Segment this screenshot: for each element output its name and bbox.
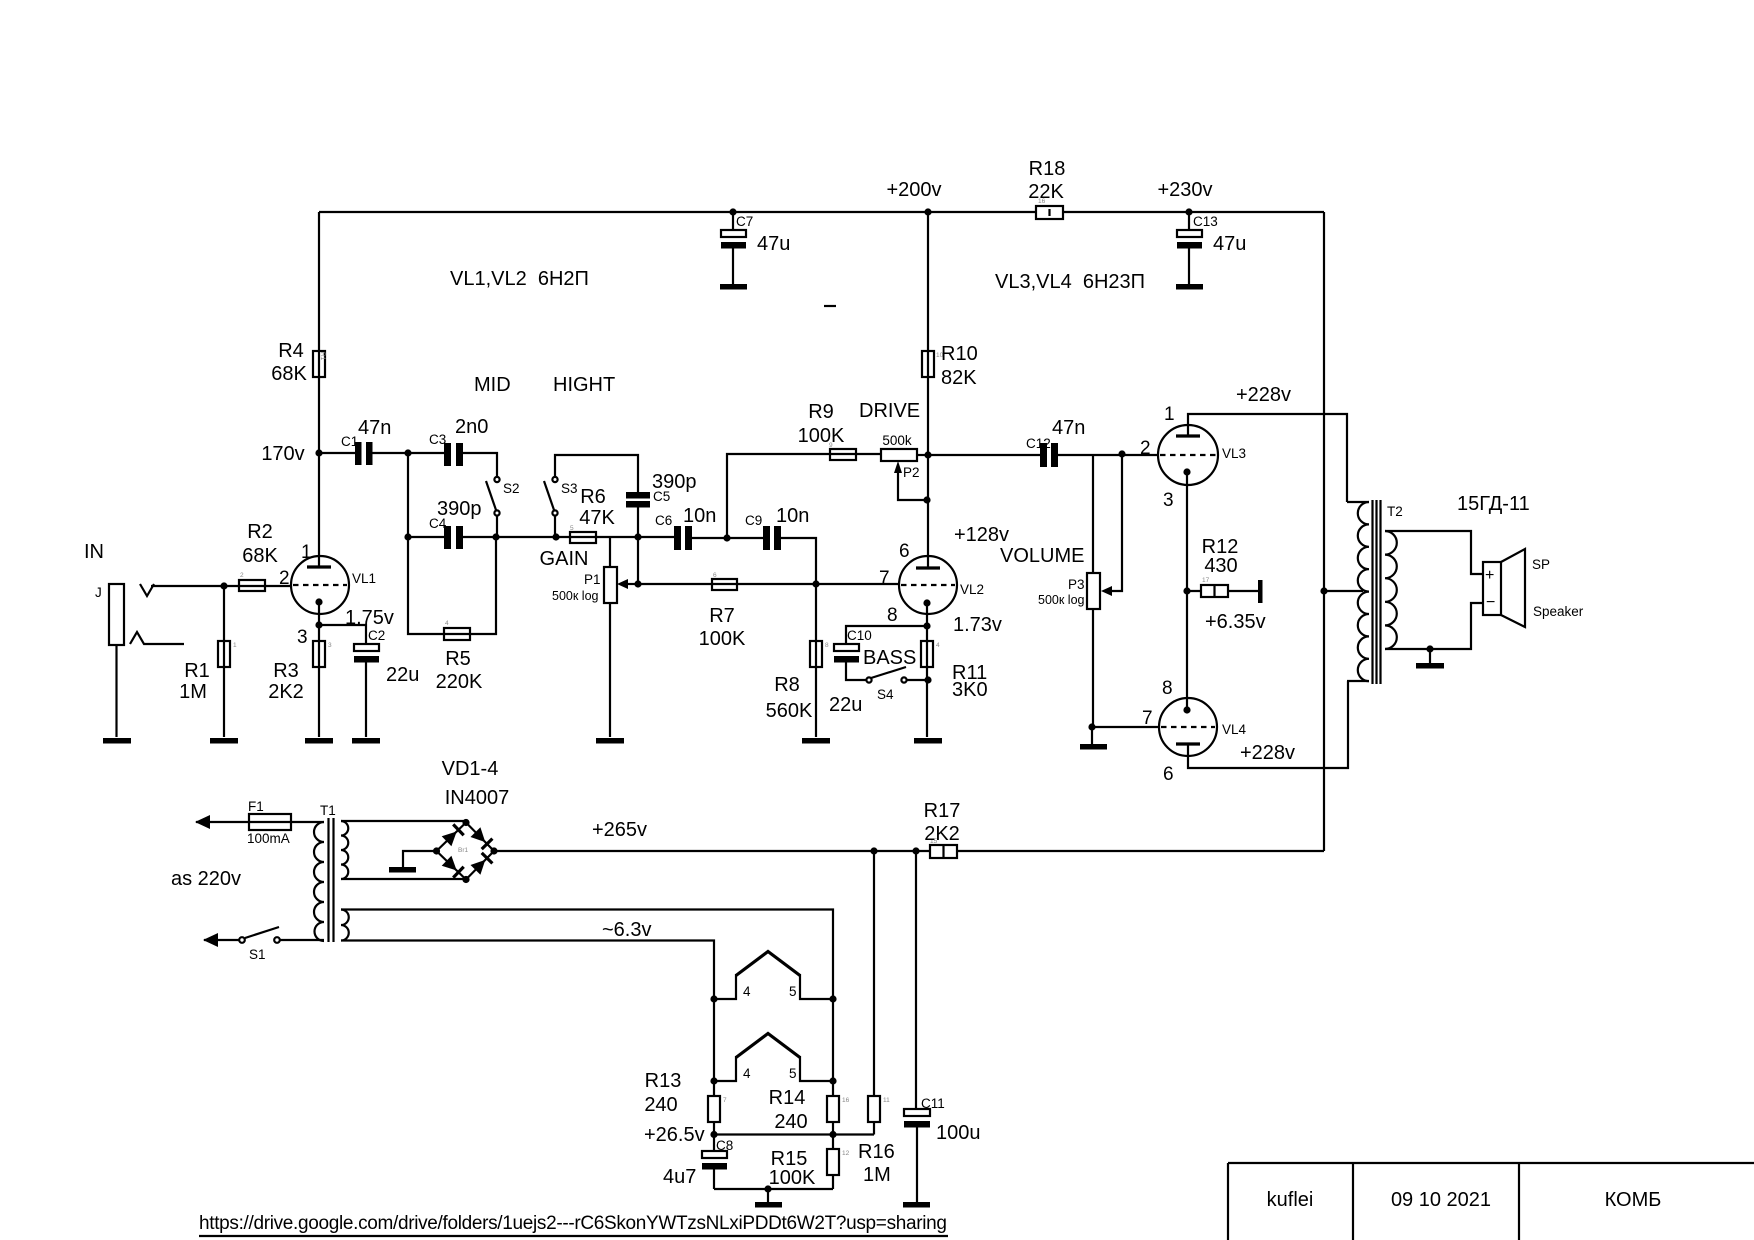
wire: R16 branch [873, 851, 875, 1096]
svg-text:VD1-4: VD1-4 [442, 758, 499, 780]
svg-text:100K: 100K [699, 628, 746, 650]
resistor R2 68K [239, 580, 265, 591]
svg-text:VL2: VL2 [960, 582, 984, 597]
svg-text:HIGHT: HIGHT [553, 374, 615, 396]
node P3 bottom [1088, 723, 1095, 730]
wire: VL4 plate to +228v line to T2 primary bottom [1188, 681, 1348, 768]
resistor R18 22K (in rail) [1036, 206, 1063, 219]
ground (T2 secondary) [1429, 649, 1431, 663]
svg-text:+228v: +228v [1236, 384, 1291, 406]
wire: cathode to C10 [846, 626, 927, 644]
wire: C6 to C9 [692, 537, 763, 539]
svg-text:R2: R2 [247, 521, 273, 543]
node R11 bottom [924, 676, 931, 683]
svg-text:C2: C2 [368, 628, 385, 643]
svg-text:Br1: Br1 [458, 847, 469, 854]
svg-text:S2: S2 [503, 481, 520, 496]
capacitor C4 390p [444, 526, 451, 549]
svg-text:6: 6 [713, 572, 717, 579]
svg-text:22u: 22u [829, 694, 862, 716]
svg-text:7: 7 [879, 568, 890, 589]
resistor R11 3K0 [921, 641, 933, 667]
svg-text:3: 3 [297, 627, 308, 648]
svg-text:16: 16 [842, 1097, 850, 1104]
svg-text:IN4007: IN4007 [445, 787, 510, 809]
svg-text:4: 4 [743, 984, 751, 999]
svg-text:R14: R14 [769, 1087, 806, 1109]
svg-text:R6: R6 [580, 486, 606, 508]
svg-text:5: 5 [789, 984, 797, 999]
node VL2 cathode 1.73v [923, 622, 930, 629]
svg-text:S1: S1 [249, 947, 266, 962]
title block [1228, 1163, 1754, 1240]
switch S2 [494, 477, 499, 482]
wire: C3 to S2 [463, 453, 497, 477]
wire: P2 right to plate line [917, 454, 928, 456]
wire: feedback tap up and over to R9 [727, 454, 881, 538]
svg-text:11: 11 [883, 1097, 890, 1104]
svg-text:КОМБ: КОМБ [1605, 1189, 1662, 1211]
svg-text:+265v: +265v [592, 819, 647, 841]
svg-text:68K: 68K [242, 545, 278, 567]
node +230v [1185, 208, 1192, 215]
wire: secondary top to speaker + [1385, 531, 1483, 574]
svg-text:2: 2 [279, 568, 290, 589]
svg-text:82K: 82K [941, 367, 977, 389]
capacitor C12 47n [1040, 443, 1047, 467]
wire: node E to C6 [638, 536, 674, 538]
wire: B+ right vertical (+230v to +265v) [1323, 212, 1325, 851]
capacitor C7 47u [729, 208, 736, 215]
svg-text:MID: MID [474, 374, 511, 396]
wire: C1 to node A [372, 452, 444, 454]
svg-text:F1: F1 [248, 799, 264, 814]
wire: VL1 cathode down [318, 602, 320, 737]
wire: C4 line [408, 536, 570, 538]
svg-text:R13: R13 [645, 1070, 682, 1092]
resistor R10 82K [922, 351, 934, 377]
svg-text:BASS: BASS [863, 647, 916, 669]
svg-text:C1: C1 [341, 434, 358, 449]
svg-text:~6.3v: ~6.3v [602, 919, 651, 941]
diode VD4 (bottom-right) [471, 860, 486, 875]
terminal bar +6.35v [1258, 580, 1263, 603]
svg-text:VL3,VL4 6Н23П: VL3,VL4 6Н23П [995, 271, 1145, 293]
resistor R4 [313, 351, 325, 377]
wire: P3 bottom to ground and VL4 grid [1092, 609, 1094, 727]
svg-text:R1: R1 [184, 660, 210, 682]
svg-text:R7: R7 [709, 605, 735, 627]
wire: R13 bottom to +26.5v node [713, 1122, 715, 1151]
svg-text:17: 17 [1202, 577, 1210, 584]
svg-text:3K0: 3K0 [952, 679, 988, 701]
svg-text:C9: C9 [745, 513, 762, 528]
svg-text:S3: S3 [561, 481, 578, 496]
svg-text:C3: C3 [429, 432, 446, 447]
svg-text:240: 240 [774, 1111, 807, 1133]
wire: C11 branch [915, 851, 917, 1109]
wire: wiper line to R7 [638, 583, 712, 585]
wire: plate line to C12 [928, 454, 1040, 456]
node E (R6/C5/C6 junction) [634, 533, 641, 540]
svg-text:+128v: +128v [954, 524, 1009, 546]
svg-text:5: 5 [789, 1066, 797, 1081]
svg-text:560K: 560K [766, 700, 813, 722]
svg-text:+6.35v: +6.35v [1205, 611, 1266, 633]
wire: R14-R15 link [832, 1122, 834, 1149]
svg-text:GAIN: GAIN [540, 548, 589, 570]
svg-text:C5: C5 [653, 489, 670, 504]
triode VL2 [899, 556, 957, 614]
wire: heater bottom [341, 941, 714, 1097]
svg-text:SP: SP [1532, 557, 1550, 572]
resistor R16 1M [868, 1096, 880, 1122]
svg-text:P2: P2 [903, 465, 920, 480]
svg-text:S4: S4 [877, 687, 894, 702]
svg-text:+: + [1485, 567, 1494, 584]
heater chevron VL1/VL2 [736, 952, 800, 976]
svg-text:P3: P3 [1068, 577, 1085, 592]
svg-text:C13: C13 [1193, 214, 1218, 229]
svg-text:7: 7 [1142, 708, 1153, 729]
node H (VL2 grid node) [812, 580, 819, 587]
ground (R1) [210, 738, 238, 744]
svg-text:240: 240 [644, 1094, 677, 1116]
svg-text:170v: 170v [261, 443, 304, 465]
ground (C8/R15) [764, 1185, 771, 1192]
wire: VL3 plate to +228v line to T2 primary top [1188, 414, 1347, 502]
ground (R11) [914, 738, 942, 744]
svg-text:7: 7 [723, 1097, 727, 1104]
svg-text:47n: 47n [358, 417, 391, 439]
ground (R3) [305, 738, 333, 744]
svg-text:as 220v: as 220v [171, 868, 241, 890]
svg-text:https://drive.google.com/drive: https://drive.google.com/drive/folders/1… [199, 1213, 947, 1234]
wire: +200v top rail [319, 211, 1324, 213]
heater chevron VL3/VL4 [736, 1034, 800, 1058]
resistor R3 2K2 [313, 641, 325, 667]
P3 wiper arrow [1111, 454, 1122, 591]
svg-text:R17: R17 [924, 800, 961, 822]
node C (C4 left junction) [404, 533, 411, 540]
svg-text:12: 12 [842, 1150, 850, 1157]
wire: cathode to C2 [319, 625, 366, 644]
svg-text:22K: 22K [1028, 181, 1064, 203]
potentiometer P2 500k [881, 449, 917, 461]
diode VD2 (top-right) [471, 827, 486, 842]
wire: bottom ground line [714, 1175, 833, 1189]
svg-text:3: 3 [1163, 490, 1174, 511]
svg-text:R18: R18 [1029, 158, 1066, 180]
svg-text:2: 2 [240, 572, 244, 579]
wire: input signal to R2 [151, 585, 292, 587]
svg-text:R5: R5 [445, 648, 471, 670]
resistor R1 1M [223, 586, 225, 737]
wire: to VL4 grid [1092, 726, 1159, 728]
svg-text:T1: T1 [320, 803, 336, 818]
ground (C13) [1176, 284, 1203, 290]
svg-text:22u: 22u [386, 664, 419, 686]
resistor R14 240 [827, 1096, 839, 1122]
node R16 top [870, 847, 877, 854]
svg-text:IN: IN [84, 541, 104, 563]
switch S3 [552, 477, 557, 482]
resistor R17 2K2 [930, 845, 957, 858]
capacitor C6 10n [674, 526, 681, 550]
wire: VL3 cathode down to VL4 cathode [1186, 472, 1188, 710]
wire: node A down to C4 line [407, 453, 409, 537]
capacitor C3 2n0 [444, 443, 451, 466]
svg-text:500к log: 500к log [1038, 593, 1085, 607]
svg-text:R16: R16 [858, 1141, 895, 1163]
node R15 top [829, 1131, 836, 1138]
svg-text:T2: T2 [1387, 504, 1403, 519]
resistor R7 100K [712, 583, 816, 585]
svg-text:8: 8 [825, 642, 829, 649]
svg-text:1: 1 [1164, 404, 1175, 425]
wire: C5 bottom to wiper node [637, 507, 639, 584]
triode VL1 [291, 556, 349, 614]
svg-text:4u7: 4u7 [663, 1166, 696, 1188]
svg-text:J: J [95, 585, 102, 600]
svg-text:C7: C7 [736, 214, 753, 229]
potentiometer P1 500k log [609, 538, 611, 737]
node T2 primary center tap [1320, 587, 1327, 594]
wire: branch down to P3 [1092, 455, 1094, 573]
svg-text:430: 430 [1204, 555, 1237, 577]
svg-text:DRIVE: DRIVE [859, 400, 920, 422]
ground (R8) [802, 738, 830, 744]
svg-text:2K2: 2K2 [268, 681, 304, 703]
svg-text:10n: 10n [776, 505, 809, 527]
svg-text:R9: R9 [808, 401, 834, 423]
triode VL3 [1158, 425, 1218, 485]
node F (P1 wiper / C5) [634, 580, 641, 587]
node R12 tap [1183, 587, 1190, 594]
svg-text:3: 3 [328, 642, 332, 649]
svg-text:1M: 1M [863, 1164, 891, 1186]
ground (C2) [352, 738, 380, 744]
svg-text:4: 4 [445, 620, 449, 627]
svg-text:10n: 10n [683, 505, 716, 527]
jack ring contact [130, 632, 184, 644]
wire: VL1 plate vertical (rail to VL1 pin 1) [318, 212, 320, 567]
node P3 wiper tap [1118, 450, 1125, 457]
svg-text:+200v: +200v [886, 179, 941, 201]
ground (C11) [903, 1202, 930, 1208]
svg-text:500к log: 500к log [552, 589, 599, 603]
svg-text:8: 8 [1162, 678, 1173, 699]
svg-text:2: 2 [1140, 438, 1151, 459]
capacitor C9 10n [763, 526, 770, 550]
node B (C4/S2/R5 junction) [492, 533, 499, 540]
node secondary ground [1426, 645, 1433, 652]
svg-text:2n0: 2n0 [455, 416, 488, 438]
svg-text:P1: P1 [584, 572, 601, 587]
svg-text:R4: R4 [278, 340, 304, 362]
wire: grid node to VL2 pin 7 [816, 583, 899, 585]
wire: C12 to VL3 grid [1058, 454, 1158, 456]
svg-text:C12: C12 [1026, 436, 1051, 451]
svg-text:+230v: +230v [1157, 179, 1212, 201]
svg-text:Speaker: Speaker [1533, 604, 1584, 619]
stray dash [824, 305, 836, 307]
svg-text:100u: 100u [936, 1122, 981, 1144]
svg-text:47n: 47n [1052, 417, 1085, 439]
svg-text:2K2: 2K2 [924, 823, 960, 845]
svg-text:VL4: VL4 [1222, 722, 1247, 737]
svg-text:VL3: VL3 [1222, 446, 1246, 461]
svg-text:4: 4 [936, 642, 940, 649]
resistor R8 560K [815, 584, 817, 737]
wire: S3 top over to C5 [555, 455, 638, 492]
svg-text:C6: C6 [655, 513, 672, 528]
resistor R12 430 [1187, 590, 1259, 592]
node P2 right [924, 451, 931, 458]
svg-text:68K: 68K [271, 363, 307, 385]
resistor R13 240 [708, 1096, 720, 1122]
capacitor C1 47n [355, 442, 362, 465]
wire: S4 to R11 bottom [907, 679, 928, 681]
svg-text:C10: C10 [847, 628, 872, 643]
svg-text:500k: 500k [882, 433, 912, 448]
wire: S2 to C4 line [496, 516, 498, 537]
node 170v [315, 449, 322, 456]
resistor R6 47K [570, 536, 638, 538]
wire: +26.5v line [714, 1133, 874, 1135]
svg-text:1: 1 [301, 542, 312, 563]
svg-text:100mA: 100mA [247, 831, 290, 846]
svg-text:1M: 1M [179, 681, 207, 703]
svg-text:1.73v: 1.73v [953, 614, 1002, 636]
svg-text:+26.5v: +26.5v [644, 1124, 705, 1146]
svg-text:+228v: +228v [1240, 742, 1295, 764]
wire: VL2 cathode down to ground [926, 603, 928, 737]
ground (jack) [103, 738, 131, 744]
node R1 top [220, 582, 227, 589]
node G (feedback tap) [723, 534, 730, 541]
resistor R15 100K [827, 1149, 839, 1175]
svg-text:47u: 47u [1213, 233, 1246, 255]
svg-text:R10: R10 [941, 343, 978, 365]
svg-text:47u: 47u [757, 233, 790, 255]
svg-text:VOLUME: VOLUME [1000, 545, 1084, 567]
wire: +200v down through R10 to VL2 plate [927, 212, 929, 568]
switch S1 [204, 939, 239, 941]
switch S4 [866, 677, 871, 682]
svg-text:R8: R8 [774, 674, 800, 696]
wire: jack sleeve to ground [115, 645, 117, 737]
ground (C7) [720, 284, 747, 290]
transformer T2 secondary [1385, 531, 1397, 649]
transformer T1 HV secondary [341, 821, 348, 879]
wire: R5 loop [408, 537, 496, 634]
svg-text:220K: 220K [436, 671, 483, 693]
node P2 wiper tap [923, 496, 930, 503]
svg-text:100K: 100K [769, 1167, 816, 1189]
svg-text:1: 1 [233, 642, 237, 649]
resistor R5 220K [444, 628, 470, 640]
svg-text:R1: R1 [319, 352, 326, 361]
node C11 top [912, 847, 919, 854]
svg-text:6: 6 [899, 541, 910, 562]
capacitor C5 390p [626, 492, 650, 499]
wire: C9 down to grid line [781, 538, 816, 584]
transformer T1 core [329, 818, 334, 942]
diode VD3 (bottom-left) [442, 856, 457, 871]
svg-text:VL1: VL1 [352, 571, 376, 586]
transformer T1 heater secondary [341, 910, 349, 941]
node +26.5v [710, 1131, 717, 1138]
node VL1 cathode (1.75v) [315, 621, 322, 628]
wire: HV bottom to bridge [341, 878, 466, 880]
svg-text:09 10 2021: 09 10 2021 [1391, 1189, 1491, 1211]
svg-text:100K: 100K [798, 425, 845, 447]
svg-text:4: 4 [743, 1066, 751, 1081]
wire: heater top ~6.3v [341, 910, 833, 1097]
node +200v [924, 208, 931, 215]
potentiometer P3 500k log [1087, 573, 1100, 609]
ground (P1) [596, 738, 624, 744]
wire: S3 bottom to node D [554, 516, 556, 537]
svg-text:6: 6 [1163, 764, 1174, 785]
svg-text:8: 8 [887, 605, 898, 626]
fuse F1 100mA [196, 821, 324, 823]
bridge rectifier Br1 [437, 823, 495, 880]
svg-text:47K: 47K [579, 507, 615, 529]
wire: +265v rail [494, 850, 1324, 852]
wire: 170v node to C1 [319, 452, 355, 454]
wire: HV top to bridge [341, 821, 466, 822]
wire: center tap [1324, 590, 1363, 592]
transformer T2 primary [1347, 502, 1369, 681]
svg-text:5: 5 [570, 525, 574, 532]
transformer T2 core [1373, 500, 1381, 684]
node A (C1/C3/C4 junction) [404, 449, 411, 456]
svg-text:390p: 390p [437, 498, 482, 520]
jack tip contact [140, 584, 154, 596]
diode VD1 (left-top) [442, 832, 457, 847]
svg-text:VL1,VL2 6Н2П: VL1,VL2 6Н2П [450, 268, 589, 290]
svg-text:R3: R3 [273, 660, 299, 682]
ground (bridge) [403, 851, 437, 867]
node D (S3 bottom junction) [552, 533, 559, 540]
resistor R9 100K [830, 449, 856, 460]
P2 wiper arrow [898, 470, 927, 500]
ground (P3) [1091, 727, 1093, 744]
triode VL4 [1159, 698, 1217, 756]
svg-text:kuflei: kuflei [1267, 1189, 1314, 1211]
wire: secondary bottom to speaker - [1385, 603, 1483, 649]
svg-text:−: − [1486, 594, 1495, 611]
svg-text:15ГД-11: 15ГД-11 [1457, 493, 1530, 515]
